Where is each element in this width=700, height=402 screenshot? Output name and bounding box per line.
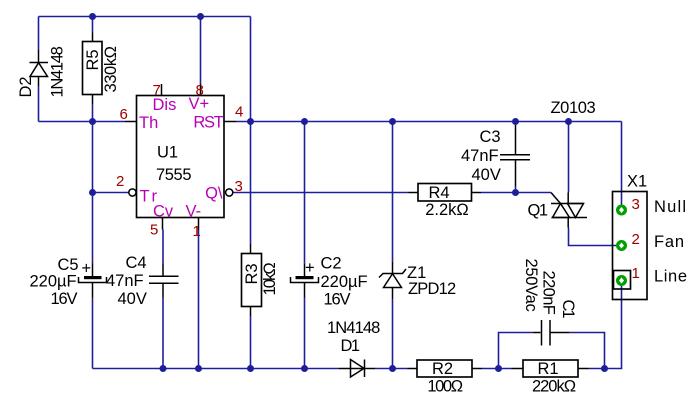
junction rail Z1 xyxy=(389,118,396,125)
wire V+ drop xyxy=(200,17,202,85)
wire C3 bottom stub xyxy=(515,187,517,193)
svg-text:R1: R1 xyxy=(537,360,558,378)
wire rail 121 xyxy=(236,121,622,123)
resistor R1 leads xyxy=(512,368,524,370)
wire R3 bottom xyxy=(250,316,252,369)
svg-text:R2: R2 xyxy=(432,360,453,378)
svg-text:C3: C3 xyxy=(480,128,501,146)
svg-text:Null: Null xyxy=(654,198,687,216)
zener diode Z1 xyxy=(379,262,406,299)
wire Th horizontal xyxy=(39,121,126,123)
svg-text:1: 1 xyxy=(632,265,640,282)
junction bus C2 xyxy=(301,365,308,372)
junction at R5 top xyxy=(89,13,96,20)
svg-text:D1: D1 xyxy=(341,337,360,355)
connector pad pin 1 xyxy=(616,275,627,286)
svg-text:X1: X1 xyxy=(627,173,647,191)
wire R2 to R1 xyxy=(482,368,512,370)
svg-text:10kΩ: 10kΩ xyxy=(261,263,279,296)
svg-text:C1: C1 xyxy=(559,300,577,319)
svg-text:5: 5 xyxy=(150,222,158,239)
svg-text:6: 6 xyxy=(120,106,128,123)
svg-text:220µF: 220µF xyxy=(321,273,368,291)
svg-text:R5: R5 xyxy=(84,49,102,70)
svg-text:16V: 16V xyxy=(51,290,78,308)
svg-text:Z0103: Z0103 xyxy=(551,99,596,117)
triac Q1 xyxy=(551,193,587,228)
svg-text:4: 4 xyxy=(235,104,243,121)
wire x92 vertical Th to C5 xyxy=(92,122,94,264)
svg-text:1: 1 xyxy=(193,223,201,240)
wire V- drop xyxy=(198,230,200,369)
svg-text:D2: D2 xyxy=(17,76,35,97)
svg-text:Cv: Cv xyxy=(153,203,174,221)
svg-text:47nF: 47nF xyxy=(461,147,499,165)
wire bus left xyxy=(93,368,340,370)
capacitor C1 xyxy=(534,320,570,346)
resistor R2 leads xyxy=(408,368,418,370)
svg-text:7555: 7555 xyxy=(156,166,191,184)
pin 2 inverter circle (Tr) xyxy=(129,189,136,196)
svg-text:Q\: Q\ xyxy=(205,185,223,203)
wire triac MT2 top xyxy=(568,122,570,193)
svg-text:220nF: 220nF xyxy=(540,271,558,315)
wire Z1 top xyxy=(392,122,394,263)
svg-text:1N4148: 1N4148 xyxy=(327,319,380,337)
connector X1 pin 1 frame xyxy=(614,271,631,290)
capacitor C2 (polarized) xyxy=(291,264,319,298)
svg-text:C5: C5 xyxy=(58,256,79,274)
resistor R5 leads xyxy=(92,33,94,42)
pin 1 stub (V-) xyxy=(198,218,200,230)
op-amp U1 body xyxy=(137,96,225,218)
svg-text:3: 3 xyxy=(632,196,640,213)
junction gate/C3 xyxy=(512,189,519,196)
svg-text:220µF: 220µF xyxy=(30,273,77,291)
svg-text:+: + xyxy=(82,260,92,278)
svg-text:U1: U1 xyxy=(157,144,178,162)
wire Cv drop to C4 xyxy=(162,230,164,264)
svg-text:1N4148: 1N4148 xyxy=(49,46,67,97)
pin 7 stub (Dis) xyxy=(161,84,163,96)
resistor R3 xyxy=(242,254,262,307)
svg-text:Th: Th xyxy=(139,114,158,132)
svg-text:Fan: Fan xyxy=(654,233,685,251)
svg-text:2.2kΩ: 2.2kΩ xyxy=(425,201,469,219)
wire left drop to D2 xyxy=(38,17,40,51)
wire C2 top xyxy=(304,122,306,265)
wire R1 to X1 pin 1 xyxy=(589,285,622,369)
svg-text:2: 2 xyxy=(116,173,124,190)
svg-text:7: 7 xyxy=(153,82,161,99)
svg-text:C2: C2 xyxy=(321,255,342,273)
resistor R4 xyxy=(418,184,472,202)
wire C5 bottom xyxy=(92,298,94,369)
capacitor C5 (polarized) xyxy=(79,264,107,298)
junction bus R3 xyxy=(247,365,254,372)
wire R5 bottom xyxy=(92,104,94,122)
svg-text:250Vac: 250Vac xyxy=(522,259,540,312)
resistor R2 xyxy=(417,360,472,377)
wire D2 bottom to Th corner xyxy=(38,86,40,122)
svg-text:16V: 16V xyxy=(324,291,351,309)
connector pad pin 3 xyxy=(616,205,627,216)
capacitor C4 xyxy=(149,264,179,298)
svg-text:330kΩ: 330kΩ xyxy=(102,46,120,92)
wire top rail xyxy=(39,16,251,18)
capacitor C3 xyxy=(500,125,530,187)
svg-text:Line: Line xyxy=(654,268,688,286)
wire Tr horizontal xyxy=(93,192,130,194)
svg-text:3: 3 xyxy=(235,178,243,195)
junction bus Z1/D1 xyxy=(389,365,396,372)
junction rail triac xyxy=(565,118,572,125)
resistor R1 xyxy=(523,360,578,377)
junction bus C1 left xyxy=(495,365,502,372)
svg-text:RST: RST xyxy=(193,114,223,132)
wire C1 bypass loop right xyxy=(569,333,605,369)
svg-text:+: + xyxy=(305,259,315,277)
svg-text:ZPD12: ZPD12 xyxy=(408,280,456,298)
svg-text:C4: C4 xyxy=(126,254,147,272)
svg-text:8: 8 xyxy=(196,82,204,99)
svg-text:47nF: 47nF xyxy=(106,272,144,290)
connector pad pin 2 xyxy=(616,240,627,251)
svg-text:40V: 40V xyxy=(472,166,501,184)
junction rail C3 xyxy=(512,118,519,125)
wire Z1 bottom xyxy=(392,299,394,369)
junction rail R3 xyxy=(247,118,254,125)
svg-text:100Ω: 100Ω xyxy=(427,378,462,396)
connector X1 body xyxy=(613,192,648,300)
pin 5 stub (Cv) xyxy=(162,218,164,230)
resistor R3 leads xyxy=(250,244,252,254)
diode D1 xyxy=(339,360,375,378)
junction rail C2 xyxy=(301,118,308,125)
wire bus D1 to R2 xyxy=(375,368,408,370)
junction bus V- xyxy=(195,365,202,372)
pin 6 stub (Th) xyxy=(125,121,137,123)
svg-text:R4: R4 xyxy=(428,184,449,202)
svg-text:Q1: Q1 xyxy=(528,202,548,220)
wire C4 bottom xyxy=(162,298,164,369)
junction at V+ rail xyxy=(197,13,204,20)
svg-text:2: 2 xyxy=(632,231,640,248)
wire triac MT1 to X1 pin 2 xyxy=(569,228,622,246)
svg-text:220kΩ: 220kΩ xyxy=(532,378,576,396)
junction bus C1 right xyxy=(601,365,608,372)
junction Th/R5 xyxy=(89,118,96,125)
svg-text:V-: V- xyxy=(186,203,202,221)
pin 8 stub (V+) xyxy=(200,84,202,96)
wire R5 top xyxy=(92,17,94,33)
wire top-right drop xyxy=(250,17,252,122)
pin 4 stub (RST) xyxy=(224,121,236,123)
pin 3 inverter circle (Q) xyxy=(226,189,233,196)
wire C1 bypass loop left xyxy=(499,333,534,369)
wire rail end drop to X1 pin 3 xyxy=(621,122,623,211)
junction Tr/C5 xyxy=(89,189,96,196)
resistor R5 xyxy=(83,42,103,95)
svg-text:40V: 40V xyxy=(118,290,147,308)
diode D2 xyxy=(30,50,49,86)
wire R4 to gate xyxy=(481,192,551,194)
resistor R4 leads xyxy=(409,192,419,194)
wire C2 bottom xyxy=(304,298,306,369)
svg-text:R3: R3 xyxy=(243,263,261,284)
wire R3 top xyxy=(250,122,252,245)
junction bus C4 xyxy=(160,365,167,372)
wire Q output to R4 xyxy=(234,192,409,194)
